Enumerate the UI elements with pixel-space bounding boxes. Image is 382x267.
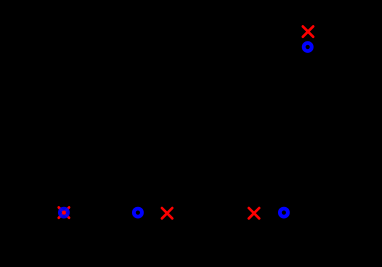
legend zero marker O (blue): [304, 43, 312, 51]
pole marker X at node A (overlapped): [59, 207, 69, 217]
pole marker X at node C: [162, 208, 172, 218]
pole marker X at node D: [249, 208, 259, 218]
zero marker O at node A (overlapped): [60, 209, 68, 217]
legend pole marker X (red): [303, 26, 313, 36]
zero marker O at node B: [134, 209, 142, 217]
zero marker O at node E: [280, 209, 288, 217]
